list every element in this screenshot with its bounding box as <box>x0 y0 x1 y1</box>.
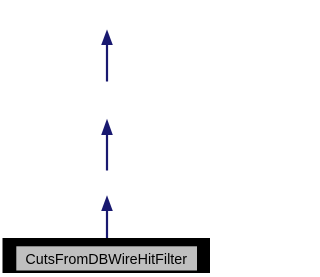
arrow from CutsFromDBWireHitFilter node <box>101 195 113 239</box>
svg-text:CutsFromDBWireHitFilter: CutsFromDBWireHitFilter <box>25 252 187 268</box>
node box CutsFromDBWireHitFilter (gray fill) <box>16 246 197 270</box>
inheritance graph for class CutsFromDBWireHitFilter <box>0 0 213 277</box>
arrow to middle base class <box>101 119 113 171</box>
node box CutsFromDBWireHitFilter (black frame) <box>3 238 211 273</box>
arrow to top base class <box>101 29 113 81</box>
